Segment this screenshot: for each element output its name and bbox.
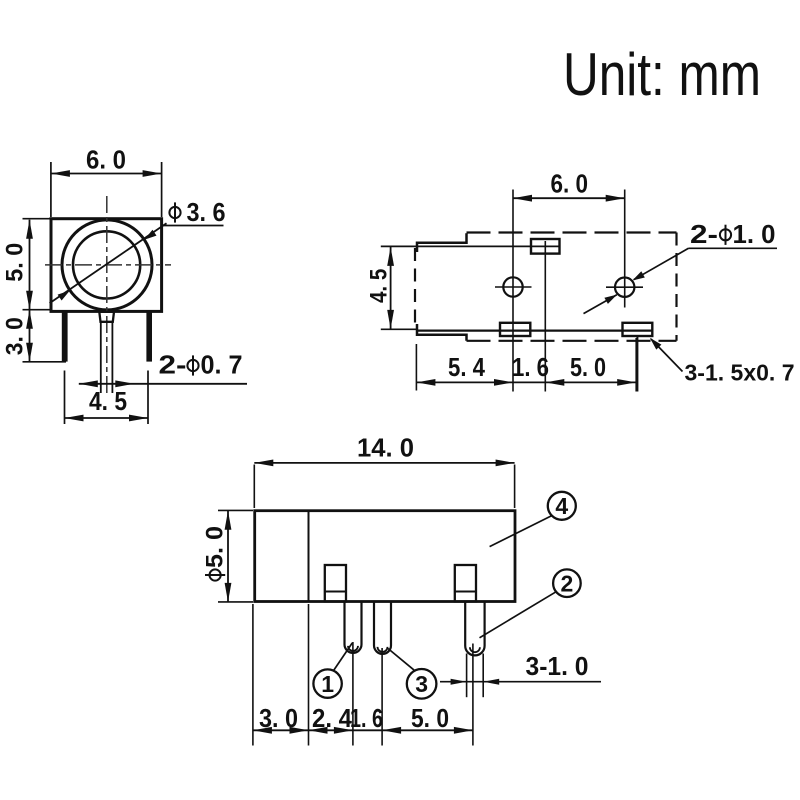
dim 14.0 arrow left xyxy=(254,460,273,467)
dim 3.0 arrow up xyxy=(26,310,33,329)
top view: solid top line (4.5 ext) xyxy=(381,245,559,247)
dim 4.5 dimension line xyxy=(65,417,149,419)
dim 4.5 (top view) arrow up xyxy=(387,247,394,266)
top view: left hole vertical centerline / ext xyxy=(512,190,514,392)
top view: top pin rectangle xyxy=(531,239,560,254)
svg-text:3. 0: 3. 0 xyxy=(259,705,298,733)
front view: center pin left line xyxy=(100,322,102,393)
dim 4.5 arrow left xyxy=(65,415,84,422)
label 3-1.5x0.7 leader line xyxy=(651,339,683,372)
top view: hidden outline dashed left edge xyxy=(414,248,416,327)
top view: left hole circle xyxy=(503,277,522,296)
dim 3.0 text (rotated) xyxy=(2,317,29,355)
label 3-1.5x0.7 arrowhead xyxy=(650,338,662,350)
side view bottom dims: arrow at 252.9 xyxy=(253,727,272,734)
dim 6.0 extension line right xyxy=(161,162,163,217)
callout circle 3 xyxy=(407,669,437,699)
label 2-phi1.0 arrowhead upper xyxy=(632,271,645,280)
front view: body square xyxy=(51,219,162,312)
dim 3.0 extension line bottom xyxy=(23,361,67,363)
svg-text:2. 4: 2. 4 xyxy=(312,705,353,733)
label 2-phi1.0 arrowhead lower xyxy=(604,295,617,304)
dim 3.0 arrow down xyxy=(26,343,33,362)
top view: hidden outline dashed bottom edge xyxy=(467,340,677,342)
svg-text:0. 7: 0. 7 xyxy=(201,352,243,380)
label phi3.6 phi symbol xyxy=(169,202,180,222)
top view: bottom-left pin rectangle xyxy=(500,323,530,336)
top view: top pin centerline down xyxy=(544,241,546,392)
dim 5.0 extension line top xyxy=(23,218,52,220)
dim 14.0 extension line right xyxy=(514,465,516,509)
label 2-phi0.7 leader line xyxy=(79,383,247,385)
dim 5.0 arrow up xyxy=(26,220,33,239)
front view: diagonal arrowhead upper-right xyxy=(144,230,156,240)
dim 6.0 arrow left xyxy=(51,170,70,177)
front view: outer circle (barrel) xyxy=(62,220,152,310)
side view bottom dims: dimension line xyxy=(253,729,473,731)
dim 14.0 extension line left xyxy=(253,465,255,509)
callout 2 leader xyxy=(480,592,557,638)
dim 14.0 arrow right xyxy=(496,460,515,467)
front view: horizontal centerline xyxy=(45,264,171,266)
top view: hidden outline dashed right edge xyxy=(675,233,677,341)
label 2-phi0.7 arrow left xyxy=(79,380,98,387)
side view: leg2 width ext line left xyxy=(466,654,468,698)
side view bottom dims: butterfly arrows at 308.5 xyxy=(290,727,309,734)
dim 4.5 (top view) text (rotated) xyxy=(365,269,392,303)
label 2-phi0.7 arrow right xyxy=(115,380,134,387)
top view bottom dims: dimension line xyxy=(416,381,636,383)
dim 3.0 dimension line xyxy=(29,310,31,362)
dim 6.0 (top view) arrow left xyxy=(513,195,532,202)
top view bottom dims: extension line far right xyxy=(635,338,637,392)
dim 4.5 arrow right xyxy=(129,415,148,422)
top view: right hole horizontal centerline xyxy=(606,286,643,288)
top view bottom dims: extension line far left xyxy=(415,344,417,391)
dim 3-1.0 arrow left-pointing xyxy=(483,679,499,685)
dim 4.5 extension line left xyxy=(64,371,66,425)
front view: vertical centerline xyxy=(106,196,108,394)
label 2-phi1.0 text xyxy=(690,221,776,249)
svg-text:14. 0: 14. 0 xyxy=(357,435,414,463)
dim phi5.0 dimension line xyxy=(227,511,229,602)
callout circle 4 xyxy=(548,492,576,520)
callout circle 1 xyxy=(313,669,341,697)
svg-text:2-: 2- xyxy=(690,221,718,249)
dim 6.0 extension line left xyxy=(50,162,52,217)
top view: solid step outline bottom-left xyxy=(417,324,467,341)
dim 5.0 arrow down xyxy=(26,291,33,310)
dim phi5.0 arrow up xyxy=(225,511,232,530)
svg-text:4. 5: 4. 5 xyxy=(365,269,392,303)
label 3-1.5x0.7 text xyxy=(685,360,795,386)
front view: diameter diagonal line xyxy=(50,223,167,303)
dim 3-1.0 dimension line xyxy=(440,681,601,683)
front view: center pin right line xyxy=(111,322,113,393)
side view bottom dims: ext line x=352.9 xyxy=(352,642,354,746)
callout circle 2 xyxy=(553,569,581,597)
top view bottom dims: arrow at 513 xyxy=(494,379,513,386)
svg-text:4. 5: 4. 5 xyxy=(89,388,127,416)
side view: leg pin 2 (right) xyxy=(465,602,484,656)
top view: bottom-right pin centerline down xyxy=(636,336,638,392)
svg-text:5. 0: 5. 0 xyxy=(570,354,606,382)
side view bottom dims: ext line x=308.5 xyxy=(308,604,310,746)
label 2-phi1.0 underline xyxy=(689,247,778,249)
side view bottom dims: ext line x=252.9 xyxy=(252,604,254,746)
svg-text:3. 6: 3. 6 xyxy=(187,199,226,227)
svg-text:1. 6: 1. 6 xyxy=(512,354,549,382)
dim phi5.0 arrow down xyxy=(225,583,232,602)
svg-text:5. 4: 5. 4 xyxy=(448,354,486,382)
side view bottom dims: arrow at 352.9 xyxy=(334,727,353,734)
dim 6.0 (top view) dimension line xyxy=(513,197,625,199)
svg-text:3-1. 5x0. 7: 3-1. 5x0. 7 xyxy=(685,360,795,386)
side view bottom dims: arrow at 382.1 xyxy=(382,727,401,734)
top view bottom dims: arrow at 636 xyxy=(617,379,636,386)
side view: left pin shoulder xyxy=(325,565,346,602)
callout 1 leader xyxy=(334,643,353,671)
top view: left hole horizontal centerline xyxy=(495,286,532,288)
label phi3.6 leader underline xyxy=(162,225,224,227)
svg-text:3. 0: 3. 0 xyxy=(2,317,29,355)
top view bottom dims: arrow at 416 xyxy=(416,379,435,386)
callout 3 leader xyxy=(388,649,415,671)
side view: leg pin 1 xyxy=(345,602,362,653)
front view: inner circle (jack hole) xyxy=(73,231,140,298)
dim 3-1.0 arrow right-pointing xyxy=(451,679,467,685)
dim 6.0 (top view) arrow right xyxy=(606,195,625,202)
svg-text:1. 6: 1. 6 xyxy=(350,705,383,733)
dim 6.0 dimension line xyxy=(51,173,162,175)
dim phi5.0 extension line bottom xyxy=(218,601,253,603)
label 2-phi1.0 leader upper segment xyxy=(634,248,689,279)
top view: solid bottom body line xyxy=(416,330,652,332)
side view bottom dims: arrow at 472.9 xyxy=(454,727,473,734)
dim 5.0 text (rotated) xyxy=(2,243,29,282)
side view: leg pin 3 (middle) xyxy=(374,602,391,654)
svg-text:4: 4 xyxy=(555,493,568,519)
dim 5.0 dimension line xyxy=(29,220,31,310)
dim 6.0 arrow right xyxy=(143,170,162,177)
dim 4.5 (top view) arrow down xyxy=(387,310,394,329)
side view: right pin shoulder xyxy=(455,565,476,602)
side view: left pin shoulder inner line xyxy=(325,591,346,593)
svg-text:5. 0: 5. 0 xyxy=(2,243,29,282)
svg-text:1: 1 xyxy=(321,671,334,697)
svg-text:5. 0: 5. 0 xyxy=(411,705,449,733)
top view: solid step outline top-left xyxy=(417,233,467,252)
dim phi5.0 extension line top xyxy=(218,509,253,511)
callout 4 leader xyxy=(490,516,552,547)
top view bottom dims: arrow at 545 xyxy=(545,379,564,386)
svg-text:2: 2 xyxy=(561,570,574,596)
top view: bottom-right pin rectangle xyxy=(623,323,653,336)
side view bottom dims: ext line x=472.9 xyxy=(472,644,474,746)
label 2-phi0.7 text xyxy=(159,352,243,380)
dim 4.5 (top view) dimension line xyxy=(390,247,392,329)
front view: left leg (solid) xyxy=(62,311,68,361)
top view: right hole circle xyxy=(615,278,634,297)
svg-text:Unit: mm: Unit: mm xyxy=(563,41,761,108)
side view bottom dims: ext line x=382.1 xyxy=(381,648,383,746)
front view: center pin collar xyxy=(99,312,114,322)
label 2-phi1.0 leader lower segment xyxy=(584,295,617,314)
top view: 4.5 bottom extension line xyxy=(381,328,417,330)
side view: right pin shoulder inner line xyxy=(455,591,476,593)
side view: body rectangle xyxy=(255,511,515,602)
svg-text:6. 0: 6. 0 xyxy=(86,147,126,175)
svg-text:1. 0: 1. 0 xyxy=(733,221,776,249)
dim 5.0/3.0 shared extension line xyxy=(23,309,52,311)
top view: hidden outline dashed top edge xyxy=(467,231,677,233)
side view: inner vertical line (barrel boundary) xyxy=(308,511,310,602)
side view: leg2 width ext line right xyxy=(482,654,484,698)
svg-text:3: 3 xyxy=(415,671,428,697)
svg-text:6. 0: 6. 0 xyxy=(551,171,589,199)
svg-text:5. 0: 5. 0 xyxy=(201,526,228,568)
svg-text:2-: 2- xyxy=(159,352,187,380)
svg-text:3-1. 0: 3-1. 0 xyxy=(526,653,589,681)
top view: right hole vertical centerline / ext xyxy=(624,190,626,308)
dim phi5.0 text (rotated) xyxy=(201,526,228,581)
dim 4.5 extension line right xyxy=(147,371,149,425)
front view: right leg (solid) xyxy=(146,311,152,361)
front view: diagonal arrowhead lower-left xyxy=(58,291,70,301)
dim 14.0 dimension line xyxy=(254,462,514,464)
